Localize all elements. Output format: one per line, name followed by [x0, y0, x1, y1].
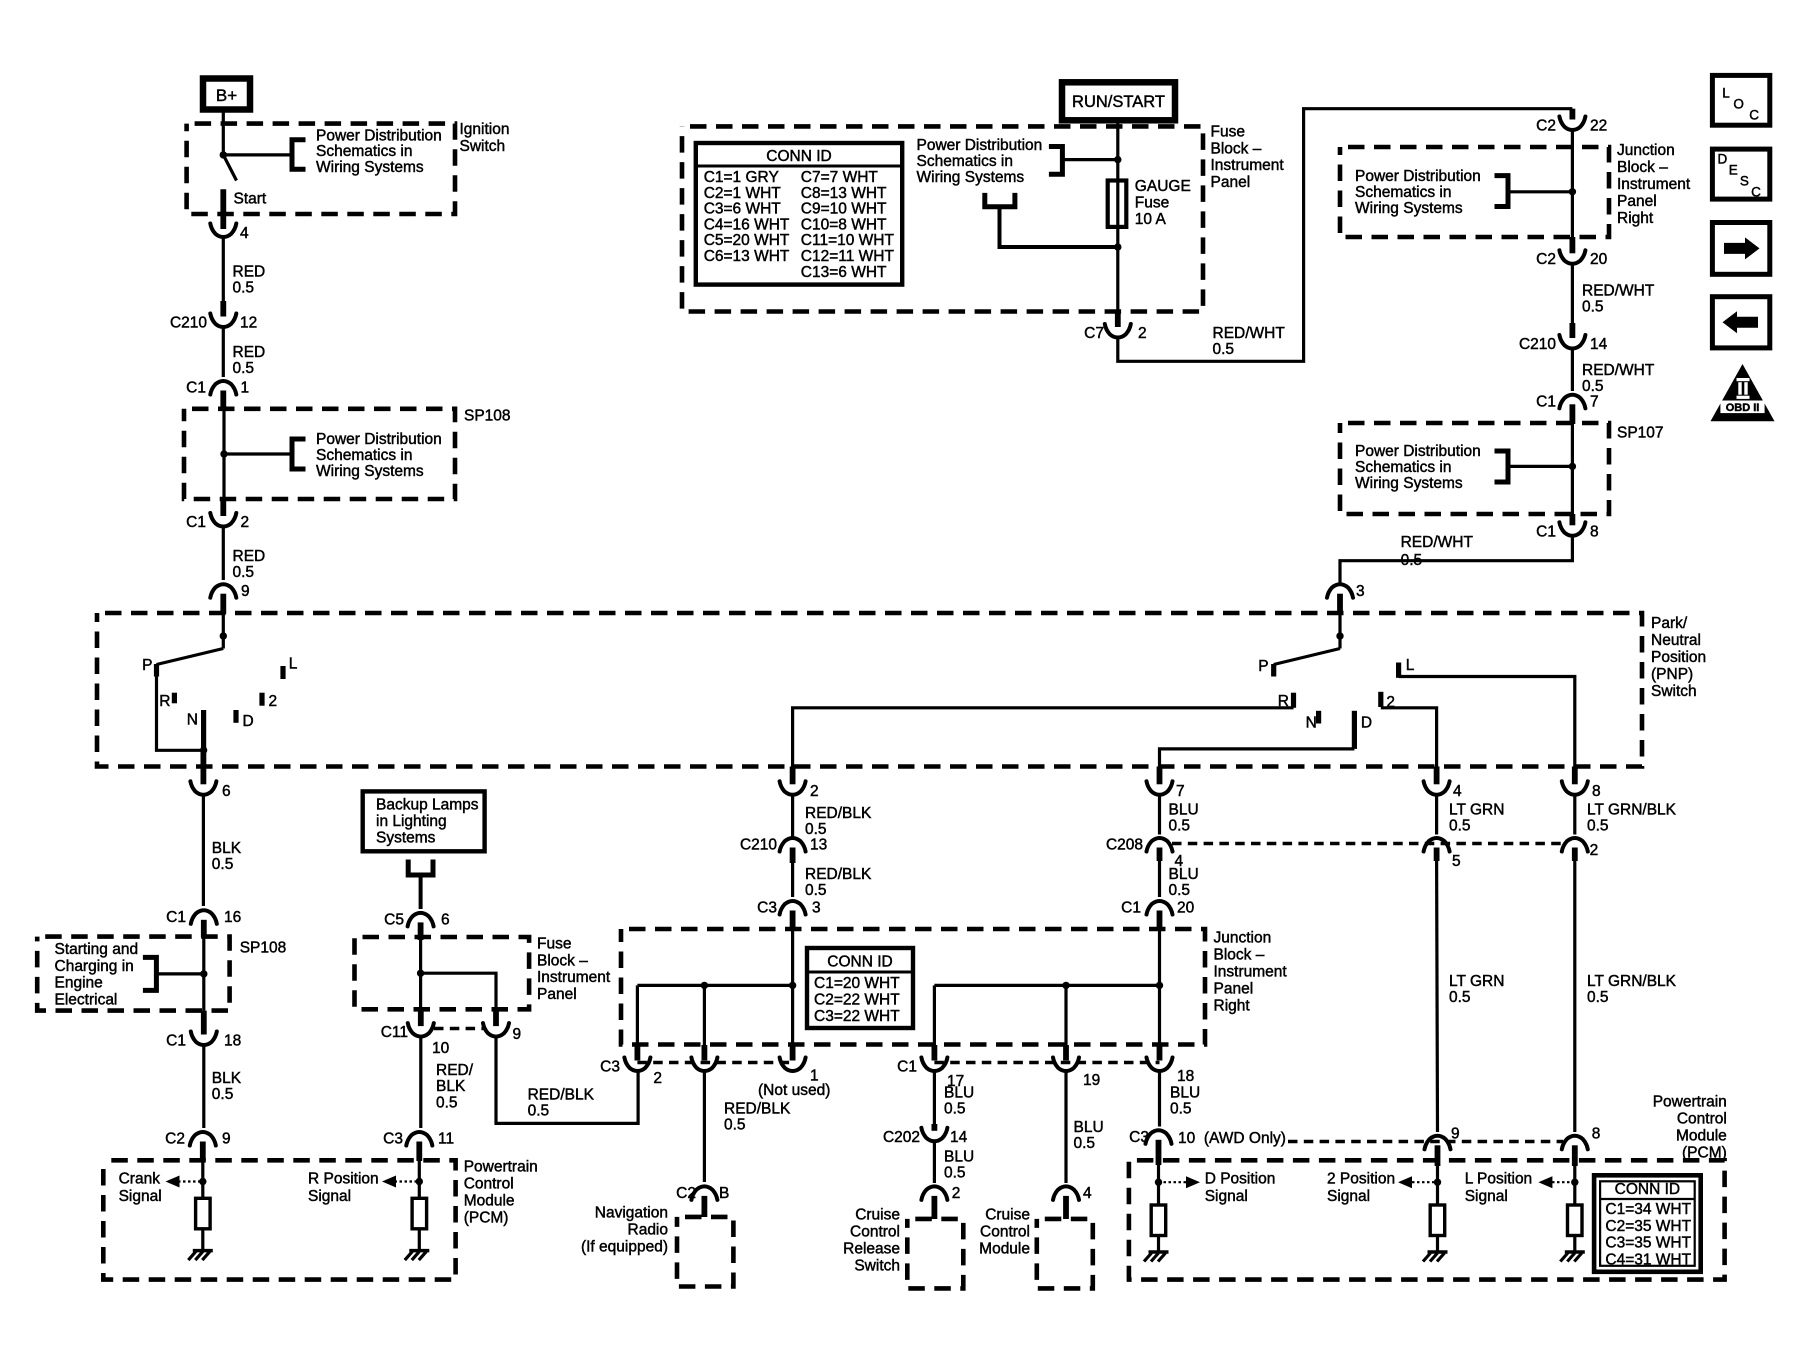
connector C5 pin 6	[384, 911, 449, 940]
powertrain control module box (left)	[103, 1160, 455, 1279]
svg-text:C210: C210	[1519, 336, 1556, 353]
svg-text:2 Position: 2 Position	[1327, 1171, 1395, 1188]
svg-text:20: 20	[1177, 900, 1195, 917]
svg-text:C1: C1	[166, 909, 186, 926]
node PNP right wiper pivot	[1336, 632, 1343, 639]
PNP right contact N	[1306, 711, 1319, 732]
svg-text:(Not used): (Not used)	[758, 1082, 830, 1099]
node PNP left wiper pivot	[220, 632, 227, 639]
svg-text:Switch: Switch	[460, 138, 506, 155]
svg-text:Fuse: Fuse	[1211, 124, 1245, 141]
svg-text:BLU: BLU	[1170, 1085, 1200, 1102]
svg-text:C4=16 WHT: C4=16 WHT	[704, 216, 790, 233]
junction block instrument panel right label (center)	[1214, 930, 1288, 1015]
PNP left contact N	[187, 710, 204, 750]
svg-text:D Position: D Position	[1205, 1171, 1276, 1188]
svg-text:Park/: Park/	[1651, 615, 1688, 632]
svg-text:11: 11	[438, 1131, 454, 1148]
PNP left contact 2	[262, 693, 277, 710]
svg-text:Block –: Block –	[1617, 159, 1668, 176]
label power distribution schematics (fuse block)	[917, 137, 1043, 186]
svg-text:Module: Module	[1676, 1127, 1727, 1144]
wire into 2 position node	[1436, 1166, 1439, 1205]
fuse block instrument panel component box (lower)	[355, 937, 530, 1009]
ignition switch blade	[223, 155, 236, 181]
svg-text:L: L	[1406, 657, 1415, 674]
wire PNP right wiper feed	[1338, 614, 1341, 649]
splice SP107 component box	[1340, 423, 1609, 514]
svg-text:0.5: 0.5	[1074, 1135, 1096, 1152]
svg-text:Schematics in: Schematics in	[316, 447, 412, 464]
connector pin 8 (PCM right)	[1562, 1126, 1601, 1167]
svg-text:BLU: BLU	[944, 1085, 974, 1102]
svg-text:C2=35 WHT: C2=35 WHT	[1605, 1218, 1691, 1235]
resistor 2 position pull	[1430, 1205, 1445, 1236]
junction block instrument panel right component box (center)	[621, 929, 1205, 1045]
connector id table (junction block)	[807, 948, 913, 1028]
park/neutral position switch component box	[97, 613, 1642, 767]
connector pin 2 (PNP R output)	[780, 767, 819, 801]
svg-text:10 A: 10 A	[1135, 211, 1167, 228]
svg-text:Wiring Systems: Wiring Systems	[316, 463, 424, 480]
svg-text:S: S	[1740, 174, 1749, 189]
svg-text:C11: C11	[381, 1024, 408, 1041]
wire RED/WHT 0.5 segment 3	[1572, 348, 1654, 395]
svg-text:L: L	[289, 655, 298, 672]
svg-text:0.5: 0.5	[233, 564, 255, 581]
reference bracket backup lamps	[408, 860, 433, 910]
node N contact output junction	[200, 747, 207, 754]
label 2 position signal	[1327, 1171, 1395, 1206]
ground (R position signal)	[405, 1251, 430, 1261]
svg-text:4: 4	[1083, 1185, 1092, 1202]
svg-text:Power Distribution: Power Distribution	[316, 127, 442, 144]
ground (D position signal)	[1144, 1252, 1169, 1262]
fuse block instrument panel component box (top)	[682, 126, 1203, 311]
starting and charging component box SP108 (lower)	[37, 937, 229, 1011]
svg-text:Schematics in: Schematics in	[316, 143, 412, 160]
svg-text:C1: C1	[186, 514, 206, 531]
svg-text:2: 2	[653, 1070, 662, 1087]
svg-text:1: 1	[241, 380, 250, 397]
svg-text:C2: C2	[676, 1185, 696, 1202]
wire BLK 0.5 upper	[203, 794, 241, 906]
PNP left contact P	[142, 657, 156, 677]
svg-text:Panel: Panel	[1214, 981, 1254, 998]
svg-text:9: 9	[241, 583, 250, 600]
splice SP107 label	[1617, 425, 1664, 442]
label starting and charging in engine electrical	[55, 941, 139, 1008]
svg-text:2: 2	[952, 1185, 961, 1202]
svg-text:Switch: Switch	[854, 1258, 900, 1275]
svg-text:Powertrain: Powertrain	[464, 1159, 538, 1176]
wire RED 0.5 segment 1	[223, 236, 265, 301]
PNP left contact D	[236, 710, 254, 730]
svg-text:7: 7	[1590, 393, 1599, 410]
svg-text:18: 18	[224, 1033, 241, 1050]
connector C208 pin 4	[1106, 837, 1184, 871]
svg-text:RUN/START: RUN/START	[1072, 93, 1165, 111]
node L position signal junction	[1571, 1179, 1578, 1186]
svg-text:CONN ID: CONN ID	[827, 954, 892, 971]
svg-text:4: 4	[1453, 783, 1462, 800]
svg-text:Wiring Systems: Wiring Systems	[1355, 200, 1463, 217]
svg-text:0.5: 0.5	[805, 882, 827, 899]
svg-text:0.5: 0.5	[1170, 1101, 1192, 1118]
svg-text:Wiring Systems: Wiring Systems	[917, 169, 1025, 186]
svg-text:RED: RED	[233, 263, 266, 280]
connector tie line C1 group	[934, 1061, 1159, 1065]
connector pin 6 (PNP output)	[190, 750, 230, 800]
svg-text:6: 6	[222, 783, 231, 800]
svg-text:RED/: RED/	[436, 1062, 474, 1079]
svg-text:0.5: 0.5	[724, 1117, 746, 1134]
connector tie line C3 PCM row	[1288, 1140, 1563, 1144]
label D position signal	[1205, 1171, 1276, 1206]
wire RED/WHT 0.5 to PNP	[1340, 534, 1572, 585]
svg-text:C: C	[1749, 108, 1759, 123]
svg-text:N: N	[1306, 714, 1317, 731]
svg-text:0.5: 0.5	[212, 1086, 234, 1103]
label power distribution schematics in wiring systems (ignition)	[316, 127, 442, 176]
ignition switch label	[460, 121, 510, 155]
svg-text:C2=22 WHT: C2=22 WHT	[814, 991, 900, 1008]
wire BLU 0.5 (C202 to release switch)	[934, 1141, 974, 1183]
svg-text:Ignition: Ignition	[460, 121, 510, 138]
connector pin 9 (PCM right)	[1425, 1126, 1460, 1167]
svg-text:C3=35 WHT: C3=35 WHT	[1605, 1235, 1691, 1252]
svg-text:P: P	[1258, 658, 1268, 675]
svg-text:Block –: Block –	[537, 952, 588, 969]
cruise control release switch component box	[907, 1219, 963, 1289]
svg-text:16: 16	[224, 909, 241, 926]
svg-text:C1=20 WHT: C1=20 WHT	[814, 975, 900, 992]
svg-text:CONN ID: CONN ID	[1615, 1181, 1680, 1198]
svg-text:RED/BLK: RED/BLK	[805, 866, 872, 883]
node ignition switch feed junction	[220, 151, 227, 158]
svg-text:14: 14	[1590, 336, 1608, 353]
svg-text:0.5: 0.5	[1449, 989, 1471, 1006]
svg-text:Junction: Junction	[1214, 930, 1272, 947]
svg-text:C4=31 WHT: C4=31 WHT	[1605, 1251, 1691, 1268]
svg-text:Instrument: Instrument	[1214, 964, 1288, 981]
svg-text:2: 2	[810, 783, 819, 800]
svg-text:Release: Release	[843, 1241, 900, 1258]
connector pin 4 (PNP 2 output)	[1424, 767, 1462, 801]
svg-text:P: P	[142, 657, 152, 674]
svg-text:Schematics in: Schematics in	[1355, 459, 1451, 476]
svg-text:20: 20	[1590, 251, 1608, 268]
svg-text:3: 3	[812, 900, 821, 917]
connector pin 3 (PNP switch feed right)	[1327, 583, 1365, 614]
svg-text:Power Distribution: Power Distribution	[316, 431, 442, 448]
connector pin 7 (PNP D output)	[1147, 767, 1185, 801]
connector tie line C3 group	[637, 1061, 792, 1065]
label powertrain control module PCM (left)	[464, 1159, 538, 1227]
wire RED/WHT 0.5 (C7 to junction block)	[1118, 109, 1573, 362]
splice SP108 component box (upper)	[184, 409, 455, 499]
wire BLU 0.5 (17 chain)	[934, 1070, 974, 1124]
svg-text:Control: Control	[980, 1224, 1030, 1241]
svg-text:Fuse: Fuse	[537, 936, 571, 953]
svg-text:Cruise: Cruise	[985, 1207, 1030, 1224]
connector C2 pin B	[676, 1185, 729, 1217]
powertrain control module box (right)	[1129, 1160, 1725, 1279]
reference bracket power distribution (ignition)	[223, 140, 305, 170]
svg-text:D: D	[1718, 152, 1728, 167]
label R position signal	[308, 1171, 379, 1206]
reference bracket power distribution (SP108 upper)	[220, 439, 305, 469]
svg-text:8: 8	[1592, 783, 1601, 800]
svg-text:Powertrain: Powertrain	[1653, 1093, 1727, 1110]
wires inside junction block left group	[637, 928, 796, 1045]
svg-text:Schematics in: Schematics in	[917, 153, 1013, 170]
svg-text:GAUGE: GAUGE	[1135, 178, 1191, 195]
svg-text:13: 13	[810, 837, 827, 854]
wire RED/WHT 0.5 segment 2	[1572, 263, 1654, 323]
label crank signal	[119, 1171, 162, 1206]
svg-text:RED/BLK: RED/BLK	[528, 1087, 595, 1104]
svg-text:Switch: Switch	[1651, 683, 1697, 700]
connector pin 1 not used (junction block)	[758, 1045, 830, 1099]
connector C1 pin 1	[186, 380, 249, 407]
svg-text:Wiring Systems: Wiring Systems	[1355, 475, 1463, 492]
RUN/START power symbol	[1062, 82, 1175, 120]
svg-text:22: 22	[1590, 118, 1607, 135]
wire resistor to ground (L position)	[1573, 1236, 1576, 1253]
connector C1 pin 20	[1121, 900, 1194, 930]
svg-text:C8=13 WHT: C8=13 WHT	[801, 185, 887, 202]
reference bracket power distribution (junction block)	[1495, 176, 1573, 207]
wire LT GRN/BLK 0.5 segment 1	[1575, 794, 1677, 834]
svg-text:(PCM): (PCM)	[464, 1210, 509, 1227]
connector C7 pin 2	[1084, 312, 1146, 343]
svg-text:D: D	[243, 713, 254, 730]
wire RED/BLK 0.5 segment 1	[793, 794, 872, 839]
svg-text:BLU: BLU	[1169, 866, 1199, 883]
svg-text:B+: B+	[216, 86, 237, 105]
svg-text:2: 2	[1590, 842, 1599, 859]
svg-text:Panel: Panel	[1211, 174, 1251, 191]
svg-text:C: C	[1751, 185, 1761, 200]
label power distribution schematics (junction block)	[1355, 168, 1481, 217]
svg-text:C1: C1	[1121, 900, 1141, 917]
connector C1 pin 17 (junction block)	[897, 1045, 964, 1090]
connector C3 pin 10 AWD only	[1129, 1129, 1286, 1165]
reference bracket starting and charging	[143, 957, 208, 990]
svg-text:C1: C1	[186, 380, 206, 397]
connector tie line C11	[434, 1027, 483, 1031]
connector C1 pin 8	[1536, 514, 1598, 540]
svg-text:C1=34 WHT: C1=34 WHT	[1605, 1201, 1691, 1218]
svg-text:6: 6	[441, 911, 450, 928]
svg-text:Charging in: Charging in	[55, 958, 134, 975]
svg-text:Signal: Signal	[308, 1188, 351, 1205]
wire PNP left wiper feed	[222, 614, 225, 649]
svg-text:C2: C2	[165, 1131, 185, 1148]
splice SP108 label (upper)	[464, 408, 511, 425]
svg-text:Signal: Signal	[119, 1188, 162, 1205]
svg-text:BLU: BLU	[944, 1148, 974, 1165]
battery B+ power symbol	[203, 79, 250, 110]
fuse block instrument panel label (top)	[1211, 124, 1285, 191]
svg-text:Right: Right	[1214, 998, 1251, 1015]
connector C210 pin 12	[170, 301, 257, 332]
svg-text:0.5: 0.5	[436, 1094, 458, 1111]
svg-text:Control: Control	[464, 1176, 514, 1193]
ground (crank signal)	[188, 1251, 213, 1261]
svg-text:0.5: 0.5	[1587, 818, 1609, 835]
svg-text:9: 9	[1451, 1126, 1460, 1143]
svg-text:LT GRN: LT GRN	[1449, 973, 1504, 990]
connector pin 2 (cruise release switch)	[921, 1185, 960, 1219]
connector C210 pin 14	[1519, 323, 1608, 353]
svg-text:L Position: L Position	[1465, 1171, 1533, 1188]
svg-text:C1: C1	[1536, 523, 1556, 540]
arrow right navigation icon	[1712, 223, 1769, 275]
wire 2 contact to chain E	[1381, 708, 1437, 767]
OBD II icon	[1711, 364, 1775, 421]
connector C208 pin 5	[1424, 838, 1461, 870]
wire RED/BLK 0.5 to navigation radio	[704, 1070, 791, 1182]
svg-text:12: 12	[240, 315, 257, 332]
node crank signal junction	[199, 1178, 206, 1185]
reference stub to power distribution (below)	[985, 193, 1118, 247]
svg-text:0.5: 0.5	[805, 821, 827, 838]
fuse block instrument panel label (lower)	[537, 936, 611, 1003]
wire RED 0.5 segment 3	[223, 526, 265, 581]
gauge fuse 10A	[1108, 178, 1191, 228]
wire L contact to chain F	[1399, 677, 1575, 767]
resistor crank signal pull	[196, 1198, 211, 1229]
wire through SP108 lower	[202, 938, 205, 1011]
wire B+ to ignition switch	[222, 112, 225, 155]
connector C3 pin 11 (PCM)	[383, 1131, 454, 1162]
svg-text:Position: Position	[1651, 649, 1706, 666]
svg-text:LT GRN/BLK: LT GRN/BLK	[1587, 802, 1677, 819]
svg-text:C210: C210	[170, 315, 207, 332]
connector C1 pin 7	[1536, 393, 1598, 424]
svg-text:SP108: SP108	[240, 940, 287, 957]
svg-text:E: E	[1729, 163, 1738, 178]
svg-text:(If equipped): (If equipped)	[581, 1239, 668, 1256]
cruise control module label	[979, 1207, 1030, 1258]
wire inside fuse block lower	[417, 940, 496, 1010]
DESC navigation icon	[1712, 149, 1769, 199]
wire gauge fuse to C7	[1114, 227, 1121, 312]
label power distribution schematics in wiring systems (SP108 upper)	[316, 431, 442, 480]
svg-text:0.5: 0.5	[233, 360, 255, 377]
svg-text:8: 8	[1592, 1126, 1601, 1143]
svg-text:Systems: Systems	[376, 830, 436, 847]
svg-text:C5=20 WHT: C5=20 WHT	[704, 232, 790, 249]
wire resistor to ground (D position)	[1157, 1236, 1160, 1253]
svg-text:C11=10 WHT: C11=10 WHT	[801, 232, 895, 249]
svg-text:LT GRN: LT GRN	[1449, 802, 1504, 819]
PNP right contact L	[1399, 657, 1415, 678]
svg-text:0.5: 0.5	[1449, 818, 1471, 835]
arrow left navigation icon	[1712, 297, 1769, 348]
connector C1 pin 16	[166, 909, 241, 938]
svg-text:Module: Module	[979, 1241, 1030, 1258]
connector C2 pin 9 (PCM)	[165, 1131, 230, 1162]
label L position signal	[1465, 1171, 1533, 1206]
svg-text:(PCM): (PCM)	[1682, 1144, 1727, 1161]
svg-text:Panel: Panel	[537, 986, 577, 1003]
crank signal arrow	[166, 1176, 203, 1188]
svg-text:R Position: R Position	[308, 1171, 379, 1188]
reference bracket power distribution (SP107)	[1495, 451, 1577, 482]
svg-text:Power Distribution: Power Distribution	[917, 137, 1043, 154]
svg-text:Panel: Panel	[1617, 193, 1657, 210]
svg-text:C2: C2	[1536, 118, 1556, 135]
svg-text:Power Distribution: Power Distribution	[1355, 443, 1481, 460]
svg-text:C202: C202	[883, 1129, 920, 1146]
svg-text:RED/BLK: RED/BLK	[805, 805, 872, 822]
svg-text:Instrument: Instrument	[1617, 176, 1691, 193]
svg-text:Schematics in: Schematics in	[1355, 184, 1451, 201]
svg-text:8: 8	[1590, 523, 1599, 540]
wire resistor to ground (crank)	[201, 1229, 204, 1251]
wire resistor to ground (R position)	[418, 1229, 421, 1251]
wire into D position node	[1157, 1165, 1160, 1205]
wire P contact to N junction	[157, 675, 204, 750]
svg-text:C2=1 WHT: C2=1 WHT	[704, 185, 782, 202]
svg-text:C3=6 WHT: C3=6 WHT	[704, 201, 782, 218]
wire pin9 to junction block C3-2	[496, 1036, 638, 1124]
svg-text:L: L	[1722, 86, 1730, 101]
svg-text:Module: Module	[464, 1193, 515, 1210]
svg-text:Control: Control	[850, 1224, 900, 1241]
svg-text:BLU: BLU	[1169, 802, 1199, 819]
svg-text:Block –: Block –	[1211, 140, 1262, 157]
svg-text:C3=22 WHT: C3=22 WHT	[814, 1008, 900, 1025]
svg-text:10 (AWD Only): 10 (AWD Only)	[1178, 1130, 1286, 1147]
svg-text:C6=13 WHT: C6=13 WHT	[704, 248, 790, 265]
connector C3 pin 2 (junction block)	[600, 1045, 662, 1087]
svg-text:C7: C7	[1084, 325, 1104, 342]
svg-text:Power Distribution: Power Distribution	[1355, 168, 1481, 185]
connector C1 pin 18	[166, 1011, 241, 1050]
svg-text:Backup Lamps: Backup Lamps	[376, 797, 479, 814]
svg-text:2: 2	[241, 514, 250, 531]
svg-text:RED/WHT: RED/WHT	[1582, 362, 1655, 379]
svg-text:N: N	[187, 711, 198, 728]
svg-text:0.5: 0.5	[944, 1101, 966, 1118]
svg-text:C1: C1	[897, 1059, 917, 1076]
svg-text:C1=1 GRY: C1=1 GRY	[704, 169, 779, 186]
wire into R position node	[418, 1161, 421, 1198]
navigation radio component box	[677, 1217, 733, 1287]
svg-text:SP108: SP108	[464, 408, 511, 425]
D position signal arrow	[1159, 1176, 1201, 1188]
ignition switch component box	[187, 124, 455, 214]
svg-text:C1: C1	[1536, 393, 1556, 410]
wire BLU 0.5 segment 2	[1160, 861, 1199, 899]
svg-text:Signal: Signal	[1465, 1188, 1508, 1205]
label RED/BLK 0.5 (cross wire)	[528, 1087, 595, 1120]
ground (2 position signal)	[1423, 1252, 1448, 1262]
node run/start feed junction	[1114, 156, 1121, 163]
wire BLU 0.5 segment 1	[1160, 794, 1199, 834]
svg-text:Instrument: Instrument	[1211, 157, 1285, 174]
wire RED 0.5 segment 2	[223, 326, 265, 377]
wire PNP right R contact to chain C	[793, 708, 1294, 767]
svg-text:CONN ID: CONN ID	[766, 148, 831, 165]
connector pin 4 (ignition switch)	[210, 224, 249, 243]
connector pin B feed (junction block middle)	[691, 1045, 717, 1071]
svg-text:3: 3	[1356, 583, 1365, 600]
